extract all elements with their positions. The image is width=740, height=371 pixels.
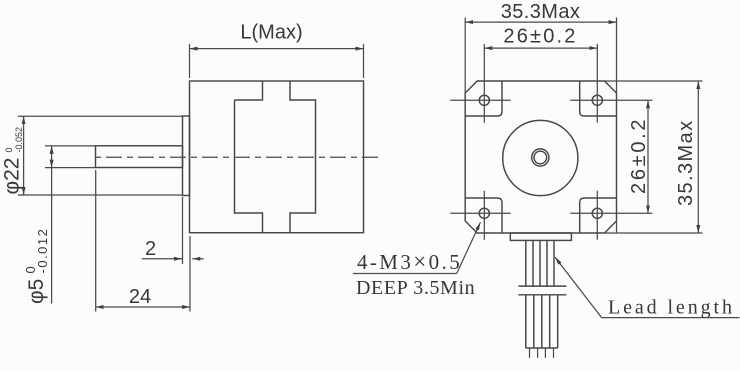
corner pocket bottom-left [465, 198, 502, 233]
svg-text:φ5: φ5 [25, 279, 48, 304]
crosshair top-right hole [570, 44, 652, 123]
shaft circle inner [534, 151, 547, 164]
pilot boss circle [503, 120, 578, 195]
mounting hole top-left [479, 95, 489, 105]
svg-text:0: 0 [4, 147, 14, 152]
svg-text:Lead length: Lead length [608, 297, 735, 319]
crosshair top-left hole [450, 44, 510, 123]
dimension 35.3Max top [465, 1, 616, 93]
dimension 26+-0.2 right [628, 100, 650, 213]
svg-text:26±0.2: 26±0.2 [628, 117, 650, 194]
break lines [518, 286, 566, 295]
crosshair bottom-right hole [570, 191, 652, 240]
svg-text:26±0.2: 26±0.2 [503, 25, 577, 47]
svg-text:35.3Max: 35.3Max [675, 119, 697, 206]
corner pocket top-left [465, 81, 502, 116]
svg-text:35.3Max: 35.3Max [501, 1, 581, 23]
leader Lead length [555, 257, 740, 319]
motor body inner lamination outline [235, 81, 316, 233]
crosshair bottom-left hole [450, 191, 510, 240]
dimension phi22 [1, 116, 183, 195]
svg-text:2: 2 [145, 238, 156, 260]
lead wires lower [526, 295, 558, 348]
front pilot boss [183, 116, 190, 196]
svg-text:L(Max): L(Max) [240, 22, 302, 44]
shaft circle outer [532, 149, 549, 166]
shaft [96, 146, 183, 168]
svg-text:4-M3×0.5: 4-M3×0.5 [357, 249, 462, 274]
mounting hole bottom-right [592, 208, 602, 218]
wire bundle end [526, 347, 558, 349]
svg-text:-0.012: -0.012 [35, 228, 50, 274]
bare wire tips [530, 348, 554, 358]
dimension phi5 [23, 146, 96, 304]
svg-text:DEEP 3.5Min: DEEP 3.5Min [356, 277, 475, 299]
mounting hole bottom-left [479, 208, 489, 218]
motor body rectangle [190, 81, 364, 233]
leader 4-M3x0.5 [353, 222, 480, 299]
dimension 35.3Max right [605, 81, 703, 233]
centerline [91, 156, 379, 158]
svg-text:24: 24 [129, 286, 151, 308]
dimension 24 (shaft length) [96, 170, 190, 312]
svg-text:φ22: φ22 [1, 158, 24, 195]
dimension L(Max) [190, 22, 364, 79]
corner pocket top-right [580, 81, 617, 116]
dimension 26+-0.2 top [484, 25, 597, 48]
svg-text:-0.052: -0.052 [14, 127, 24, 153]
mounting hole top-right [592, 95, 602, 105]
motor face square with chamfered corners [465, 81, 616, 233]
lead wires upper [526, 240, 554, 285]
dimension 2 (boss height) [142, 197, 204, 312]
lead exit tab [510, 233, 571, 240]
corner pocket bottom-right [580, 198, 617, 233]
